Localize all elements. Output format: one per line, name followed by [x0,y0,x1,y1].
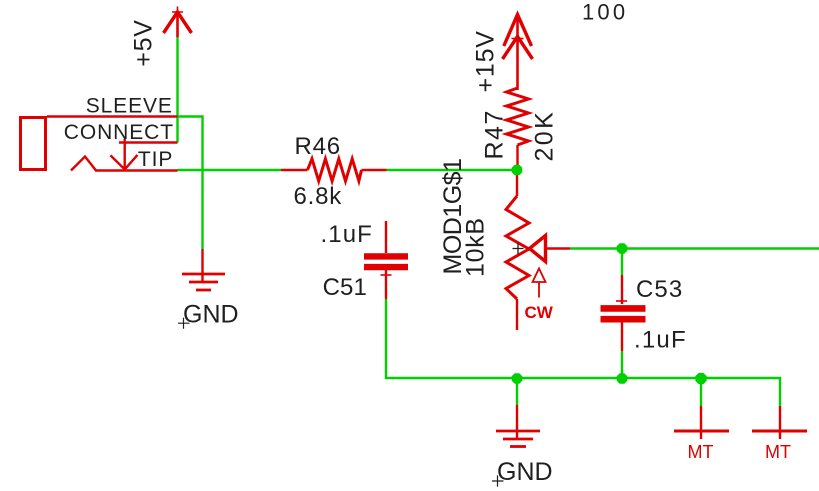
supply +15V arrow [503,15,533,91]
svg-text:20K: 20K [531,110,559,162]
origin cross GND bottom [492,475,504,486]
svg-text:C53: C53 [636,276,683,303]
jack tip pin [71,157,178,171]
svg-text:CONNECT: CONNECT [64,121,174,144]
node junction bottom pot [512,373,523,384]
wire R46 to pot top node [387,169,518,171]
node junction bottom C53 [617,373,628,384]
wire wiper to right edge [570,247,819,249]
wire bottom rail [517,378,780,406]
node junction wiper/C53 [617,243,628,254]
wire MT1 stub [700,378,702,406]
ground GND bottom [496,405,540,447]
wire C53 top [621,249,623,276]
pot wiper arrow [530,236,546,262]
jack sleeve pin [47,115,178,117]
jack connect pin [111,139,178,170]
svg-text:R46: R46 [295,133,341,160]
wire C51 to bottom rail [386,299,517,378]
wire sleeve to ground [178,117,203,250]
svg-text:GND: GND [183,300,239,328]
capacitor C53 [601,275,646,351]
svg-text:10kB: 10kB [462,217,490,277]
svg-text:+5V: +5V [129,19,157,67]
wire +5V to jack [176,37,178,143]
resistor R46 [281,159,387,181]
svg-text:MT: MT [688,442,714,462]
origin cross GND left [178,318,190,329]
wire bottom gnd stub [516,378,518,405]
jack connector J1 body [21,118,46,170]
svg-text:TIP: TIP [138,148,173,171]
svg-text:.1uF: .1uF [321,221,373,248]
svg-text:.1uF: .1uF [634,327,687,354]
mount pad MT1 [674,406,729,439]
resistor R47 [507,88,529,170]
node junction pot top [512,165,523,176]
svg-text:+15V: +15V [472,30,500,92]
wire tip to R46 [178,169,282,171]
svg-text:100: 100 [582,0,628,25]
capacitor C51 [364,221,408,299]
svg-text:CW: CW [525,303,554,322]
node junction bottom MT [695,373,706,384]
svg-text:C51: C51 [323,274,367,301]
svg-text:SLEEVE: SLEEVE [86,94,173,117]
potentiometer MOD1G$1 [506,170,529,330]
svg-text:6.8k: 6.8k [294,183,343,210]
svg-text:R47: R47 [481,109,509,159]
svg-text:GND: GND [497,458,553,486]
pot cw arrow [533,269,546,298]
wire C53 bottom [621,351,623,378]
ground GND left [182,249,225,290]
pot origin cross [513,243,524,254]
supply +5V arrow [164,7,192,38]
mount pad MT2 [752,406,807,439]
svg-text:MT: MT [765,442,791,462]
